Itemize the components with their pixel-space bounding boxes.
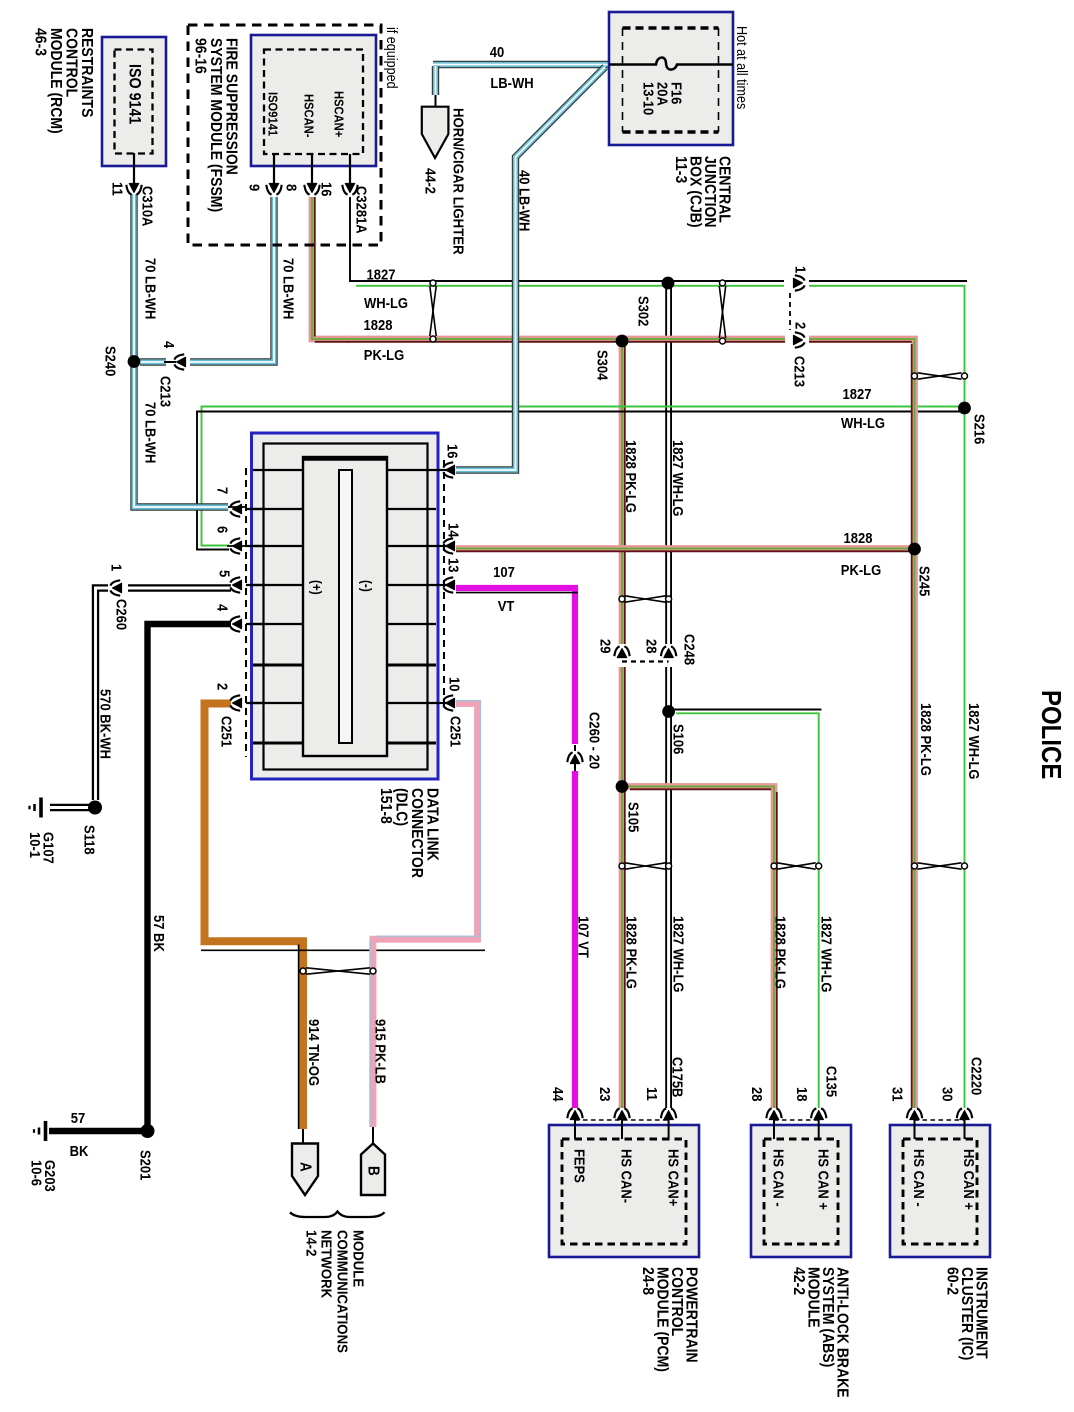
svg-text:MODULE (RCM): MODULE (RCM) <box>47 28 65 134</box>
svg-text:11: 11 <box>644 1087 661 1101</box>
svg-text:PK-LG: PK-LG <box>841 562 881 578</box>
svg-text:570 BK-WH: 570 BK-WH <box>97 689 114 759</box>
svg-text:2: 2 <box>214 683 231 690</box>
svg-text:13-10: 13-10 <box>640 82 657 115</box>
wire 1828 PK-LG branch from S105 to ABS pin 28 <box>628 787 774 1109</box>
wire 57 BK from S201 to ground G203 <box>49 1128 148 1134</box>
module connector dashed line <box>774 1119 819 1121</box>
module connector dashed line <box>915 1119 965 1121</box>
wire 1827 WH-LG vertical pair from S302 down to C248 pin 28 <box>665 283 672 644</box>
svg-text:9: 9 <box>246 184 263 191</box>
module box: INSTRUMENT <box>890 1125 990 1257</box>
connector box: DATA LINK CONNECTOR (DLC) <box>252 433 439 779</box>
connector C260-20 arrow on 107 VT wire <box>567 752 582 763</box>
wire 1827 WH-LG run A: black from FSSM C3281A pin 16 to corner at right <box>350 197 784 281</box>
splice S201 <box>141 1124 155 1138</box>
connector C3281A arrow pin 9 <box>266 183 281 194</box>
svg-text:RESTRAINTS: RESTRAINTS <box>78 28 96 117</box>
svg-text:44: 44 <box>550 1087 567 1102</box>
svg-text:57 BK: 57 BK <box>151 915 168 952</box>
twisted pair symbol above PCM <box>619 863 672 869</box>
wire 570 BK-WH from S118 to ground G107 <box>50 804 90 811</box>
module box: FIRE SUPPRESSION SYSTEM MODULE (FSSM) <box>251 35 376 166</box>
connector C213 arrow pin 1 on run A <box>793 275 804 290</box>
wire 70 LB-WH from C213 pin 4 to FSSM C3281A pin 9 <box>190 197 274 362</box>
svg-text:96-16: 96-16 <box>191 38 209 74</box>
svg-text:WH-LG: WH-LG <box>364 295 408 311</box>
svg-text:30: 30 <box>939 1087 956 1102</box>
svg-text:C2220: C2220 <box>968 1057 985 1095</box>
DLC pin 2 lead and arrow <box>246 702 265 704</box>
svg-text:914 TN-OG: 914 TN-OG <box>306 1019 323 1086</box>
svg-text:1827: 1827 <box>843 386 872 402</box>
svg-text:23: 23 <box>597 1087 614 1102</box>
svg-text:HS CAN -: HS CAN - <box>770 1149 787 1207</box>
module pin 28 arrow and stub <box>766 1108 781 1119</box>
svg-text:46-3: 46-3 <box>31 28 49 56</box>
wire 1828 PK-LG from FSSM C3281A pin 8 down to run corner <box>312 197 350 339</box>
svg-text:915 PK-LB: 915 PK-LB <box>372 1019 389 1084</box>
DLC pin 4 lead and arrow <box>246 623 265 625</box>
svg-text:16: 16 <box>444 444 461 459</box>
svg-text:14-2: 14-2 <box>302 1230 319 1256</box>
svg-text:6: 6 <box>214 526 231 533</box>
module connector dashed line <box>575 1119 669 1121</box>
wire 1827 WH-LG run at y407: green line from DLC pin 6 to S216 <box>202 407 962 546</box>
ground G107 <box>30 798 42 818</box>
module box: RESTRAINTS CONTROL MODULE (RCM) <box>102 37 166 166</box>
svg-text:1828 PK-LG: 1828 PK-LG <box>772 916 789 989</box>
svg-text:S201: S201 <box>137 1150 154 1181</box>
wire 40 LB-WH stub into horn/cigar lighter <box>432 66 439 95</box>
svg-text:FIRE SUPPRESSION: FIRE SUPPRESSION <box>222 38 240 175</box>
svg-text:11: 11 <box>109 182 126 196</box>
svg-text:SYSTEM MODULE (FSSM): SYSTEM MODULE (FSSM) <box>207 38 225 212</box>
svg-text:31: 31 <box>889 1087 906 1102</box>
wire 1828 PK-LG horizontal run to C213 pin 2 <box>348 336 785 343</box>
svg-text:14: 14 <box>445 523 462 538</box>
horn/cigar lighter symbol <box>422 107 449 158</box>
connector C248 dashed line <box>622 660 669 662</box>
module pin 18 arrow and stub <box>811 1108 826 1119</box>
svg-text:HS CAN +: HS CAN + <box>961 1149 978 1210</box>
CJB inner dashed box <box>623 26 719 29</box>
svg-text:POLICE: POLICE <box>1036 690 1066 779</box>
connector C213 dashed line <box>789 293 791 330</box>
splice S106 <box>662 705 675 718</box>
twisted pair symbol on runs A/B at x722 <box>719 280 725 344</box>
svg-text:5: 5 <box>216 570 233 577</box>
DLC connector body <box>303 457 387 756</box>
DLC pin 5 lead and arrow <box>246 584 265 586</box>
svg-text:57: 57 <box>71 1110 86 1126</box>
wire 1828 PK-LG vertical from C248 pin 29 through S105 to PCM pin 23 <box>619 667 626 1108</box>
svg-text:28: 28 <box>643 639 660 654</box>
RCM inner dashed connector box <box>115 50 153 154</box>
svg-text:HS CAN-: HS CAN- <box>618 1149 635 1203</box>
wire 1827 WH-LG green from S216 down to IC pin 30 <box>964 403 966 1108</box>
svg-text:40 LB-WH: 40 LB-WH <box>516 170 533 231</box>
connector C213 arrow pin 2 on run B <box>793 332 804 347</box>
svg-text:1: 1 <box>792 266 809 273</box>
svg-text:C213: C213 <box>791 356 808 387</box>
wire 915 PK-LB from DLC pin 10 down to connector B <box>373 704 478 1128</box>
DLC pin 6 lead line <box>227 545 246 547</box>
black stripe on 914 TN-OG lower vertical <box>298 945 300 1130</box>
svg-text:C213: C213 <box>157 376 174 407</box>
splice S118 <box>88 801 102 815</box>
svg-text:4: 4 <box>161 341 178 348</box>
svg-text:70 LB-WH: 70 LB-WH <box>280 258 297 319</box>
svg-text:1827 WH-LG: 1827 WH-LG <box>966 703 983 780</box>
svg-text:NETWORK: NETWORK <box>317 1230 334 1299</box>
wire 914 TN-OG from DLC pin 2 down to connector A <box>205 704 304 1130</box>
svg-text:A: A <box>296 1162 313 1172</box>
junction 4 / C213 arrow on LB-WH wire <box>174 354 185 369</box>
splice S245 <box>908 543 921 556</box>
svg-text:107: 107 <box>493 564 515 580</box>
connector C248 arrow pin 28 <box>661 646 676 657</box>
svg-text:HS CAN +: HS CAN + <box>815 1149 832 1210</box>
DLC pin 7 lead line <box>226 506 246 508</box>
fuse F16 20A element <box>609 58 733 70</box>
wire 1827 WH-LG branch from S106 to ABS pin 18: black line <box>672 709 822 711</box>
svg-text:S118: S118 <box>81 825 98 855</box>
connector C310A arrow <box>126 183 141 194</box>
wire 70 LB-WH from RCM C310A down to splice S240 <box>130 194 137 356</box>
svg-text:42-2: 42-2 <box>790 1267 808 1295</box>
svg-text:16: 16 <box>318 182 335 197</box>
module box: CENTRAL JUNCTION BOX (CJB) <box>609 12 733 145</box>
svg-text:10-1: 10-1 <box>27 832 44 858</box>
svg-text:C135: C135 <box>823 1066 840 1097</box>
module box: POWERTRAIN <box>549 1125 699 1257</box>
splice S304 <box>616 335 629 348</box>
svg-text:1828 PK-LG: 1828 PK-LG <box>918 703 935 776</box>
DLC left dashed connector line C251 <box>245 468 247 757</box>
twisted pair symbol above ABS <box>771 863 822 869</box>
DLC pin 16 lead and arrow <box>436 469 447 471</box>
connector C248 arrow pin 29 <box>614 646 629 657</box>
wire 107 VT magenta from C260-20 to PCM pin 44 <box>572 771 578 1108</box>
svg-text:HORN/CIGAR LIGHTER: HORN/CIGAR LIGHTER <box>449 108 466 255</box>
DLC pin 6 lead and arrow <box>246 545 265 547</box>
svg-text:1827 WH-LG: 1827 WH-LG <box>670 440 687 517</box>
module pin 11 arrow and stub <box>661 1108 676 1119</box>
connector A symbol <box>302 1129 304 1143</box>
twisted pair symbol above C248 <box>619 596 672 602</box>
splice S240 <box>128 355 141 368</box>
svg-text:C251: C251 <box>218 716 235 747</box>
svg-text:DATA LINK: DATA LINK <box>423 788 441 861</box>
twisted pair symbol above IC <box>912 863 968 869</box>
svg-text:1827 WH-LG: 1827 WH-LG <box>670 916 687 993</box>
wire 1827 WH-LG run at y407: black line from DLC pin 6 to S216 <box>197 412 963 550</box>
svg-text:10-6: 10-6 <box>28 1160 45 1186</box>
DLC center slot <box>339 470 352 743</box>
wire 40 LB-WH diagonal from fuse down to vertical run <box>456 67 605 470</box>
svg-text:18: 18 <box>794 1087 811 1102</box>
svg-text:ISO9141: ISO9141 <box>265 92 280 136</box>
wire 1827 WH-LG vertical pair from C248 pin 28 to PCM pin 11 <box>665 667 672 1108</box>
svg-text:60-2: 60-2 <box>943 1267 961 1295</box>
svg-text:40: 40 <box>490 44 505 60</box>
wire 1828 PK-LG vertical from S304 down to C248 pin 29 <box>619 341 626 644</box>
svg-text:1828: 1828 <box>844 530 873 546</box>
DLC pin 13 lead and arrow <box>436 584 447 586</box>
svg-text:S304: S304 <box>594 350 611 381</box>
module pin 31 arrow and stub <box>907 1108 922 1119</box>
module pin 23 arrow and stub <box>614 1108 629 1119</box>
svg-text:44-2: 44-2 <box>422 168 439 194</box>
DLC pin 7 lead and arrow <box>246 508 265 510</box>
svg-text:107 VT: 107 VT <box>575 916 592 958</box>
module box: ANTI-LOCK BRAKE <box>751 1125 851 1257</box>
svg-text:1827 WH-LG: 1827 WH-LG <box>818 916 835 993</box>
svg-text:1828 PK-LG: 1828 PK-LG <box>623 440 640 513</box>
svg-text:1: 1 <box>108 564 125 571</box>
svg-text:if equipped: if equipped <box>384 27 400 89</box>
wire 57 BK from DLC pin 4 down to splice S201 <box>148 624 232 1131</box>
wire 70 LB-WH from S240 down and right to DLC pin 7 <box>134 367 228 507</box>
svg-text:(+): (+) <box>309 580 325 595</box>
black line under module-communications jogs <box>201 949 485 951</box>
module pin 30 arrow and stub <box>957 1108 972 1119</box>
DLC pin 14 lead and arrow <box>436 545 447 547</box>
splice S302 <box>662 277 675 290</box>
svg-text:VT: VT <box>498 598 515 614</box>
svg-text:CONNECTOR: CONNECTOR <box>408 788 426 878</box>
wire 570 BK-WH from DLC pin 5 to C260 pin 1 <box>128 584 231 591</box>
svg-text:ISO 9141: ISO 9141 <box>125 64 143 125</box>
svg-text:1827: 1827 <box>367 267 396 283</box>
svg-text:C310A: C310A <box>139 186 156 226</box>
RCM pin 11 stub <box>133 153 135 184</box>
svg-text:70 LB-WH: 70 LB-WH <box>142 258 159 319</box>
svg-text:COMMUNICATIONS: COMMUNICATIONS <box>333 1230 350 1353</box>
FSSM inner dashed connector box <box>264 50 363 155</box>
wire 1828 PK-LG from S245 down to IC pin 31 <box>911 550 918 1108</box>
wire 1828 PK-LG run C from DLC pin 14 to splice S245 <box>456 545 911 552</box>
wire 40 LB-WH from CJB fuse F16 to horn/cigar lighter <box>433 61 608 68</box>
svg-text:HSCAN-: HSCAN- <box>301 94 316 137</box>
svg-text:10: 10 <box>446 677 463 692</box>
FSSM outer dashed box (if equipped) <box>188 25 381 245</box>
wire 1827 WH-LG branch from S106 to ABS pin 18: green line <box>676 713 819 1108</box>
svg-text:LB-WH: LB-WH <box>490 75 533 91</box>
connector B symbol <box>372 1127 374 1143</box>
svg-text:1828: 1828 <box>364 317 393 333</box>
svg-text:HSCAN+: HSCAN+ <box>331 91 346 137</box>
svg-text:29: 29 <box>597 639 614 654</box>
DLC right dashed connector line C251 <box>443 460 445 712</box>
svg-text:70 LB-WH: 70 LB-WH <box>142 402 159 463</box>
svg-text:(-): (-) <box>359 580 375 592</box>
svg-text:1828 PK-LG: 1828 PK-LG <box>623 916 640 989</box>
svg-text:13: 13 <box>445 558 462 573</box>
wire 570 BK-WH from C260 pin 1 down to splice S118 <box>96 588 109 800</box>
DLC inner black box <box>264 444 428 770</box>
svg-text:Hot at all times: Hot at all times <box>734 26 750 109</box>
svg-text:(DLC): (DLC) <box>392 788 410 826</box>
svg-text:C248: C248 <box>681 634 698 665</box>
svg-text:11-3: 11-3 <box>672 156 690 183</box>
svg-text:24-8: 24-8 <box>639 1267 657 1295</box>
svg-text:S245: S245 <box>916 566 933 597</box>
wire 1828 PK-LG from C213 pin 2 right and down to S245 <box>809 339 915 550</box>
connector C3281A arrow pin 8 <box>304 183 319 194</box>
svg-text:B: B <box>364 1166 381 1176</box>
svg-text:8: 8 <box>283 184 300 191</box>
svg-text:7: 7 <box>214 487 231 494</box>
svg-text:S216: S216 <box>971 414 988 445</box>
twisted pair symbol on module communications wires <box>300 968 376 974</box>
svg-text:S106: S106 <box>670 724 687 755</box>
svg-text:S105: S105 <box>625 802 642 833</box>
svg-text:C251: C251 <box>447 716 464 747</box>
module pin 44 arrow and stub <box>567 1108 582 1119</box>
connector C260 arrow pin 1 on 570 BK-WH wire <box>110 580 121 595</box>
svg-text:151-8: 151-8 <box>377 788 395 824</box>
svg-text:S240: S240 <box>102 346 119 377</box>
svg-text:C175B: C175B <box>669 1057 686 1097</box>
svg-text:C260: C260 <box>113 599 130 630</box>
wire 107 VT magenta from DLC pin 13 to C260-20 <box>456 588 575 744</box>
svg-text:S302: S302 <box>635 296 652 327</box>
DLC pin lines right side <box>387 469 436 471</box>
splice S105 <box>616 780 629 793</box>
svg-text:BK: BK <box>70 1143 89 1159</box>
svg-text:WH-LG: WH-LG <box>841 415 885 431</box>
brace for module communications network <box>290 1212 385 1218</box>
ground G203 <box>34 1121 46 1141</box>
twisted pair symbol right side at y376 <box>912 373 968 379</box>
svg-text:MODULE: MODULE <box>349 1230 366 1287</box>
svg-text:C3281A: C3281A <box>353 186 370 234</box>
splice S216 <box>958 402 971 415</box>
DLC pin lines left side <box>253 469 303 471</box>
DLC pin 10 lead and arrow <box>436 702 447 704</box>
connector C3281A arrow pin 16 <box>342 183 357 194</box>
svg-text:PK-LG: PK-LG <box>364 347 404 363</box>
wire 1827 WH-LG run A: green line with corner down to S216 <box>356 285 784 287</box>
FSSM pin stubs <box>273 154 275 184</box>
twisted pair symbol on runs A/B at x433 <box>430 280 436 342</box>
svg-text:28: 28 <box>749 1087 766 1102</box>
svg-text:HS CAN -: HS CAN - <box>911 1149 928 1207</box>
svg-text:2: 2 <box>792 322 809 329</box>
svg-text:FEPS: FEPS <box>571 1149 588 1183</box>
svg-text:CONTROL: CONTROL <box>62 28 80 97</box>
wire 70 LB-WH from S240 right to C213 pin 4 <box>140 358 166 365</box>
svg-text:4: 4 <box>214 604 231 611</box>
svg-text:HS CAN+: HS CAN+ <box>665 1149 682 1206</box>
svg-text:C260 - 20: C260 - 20 <box>586 712 603 769</box>
